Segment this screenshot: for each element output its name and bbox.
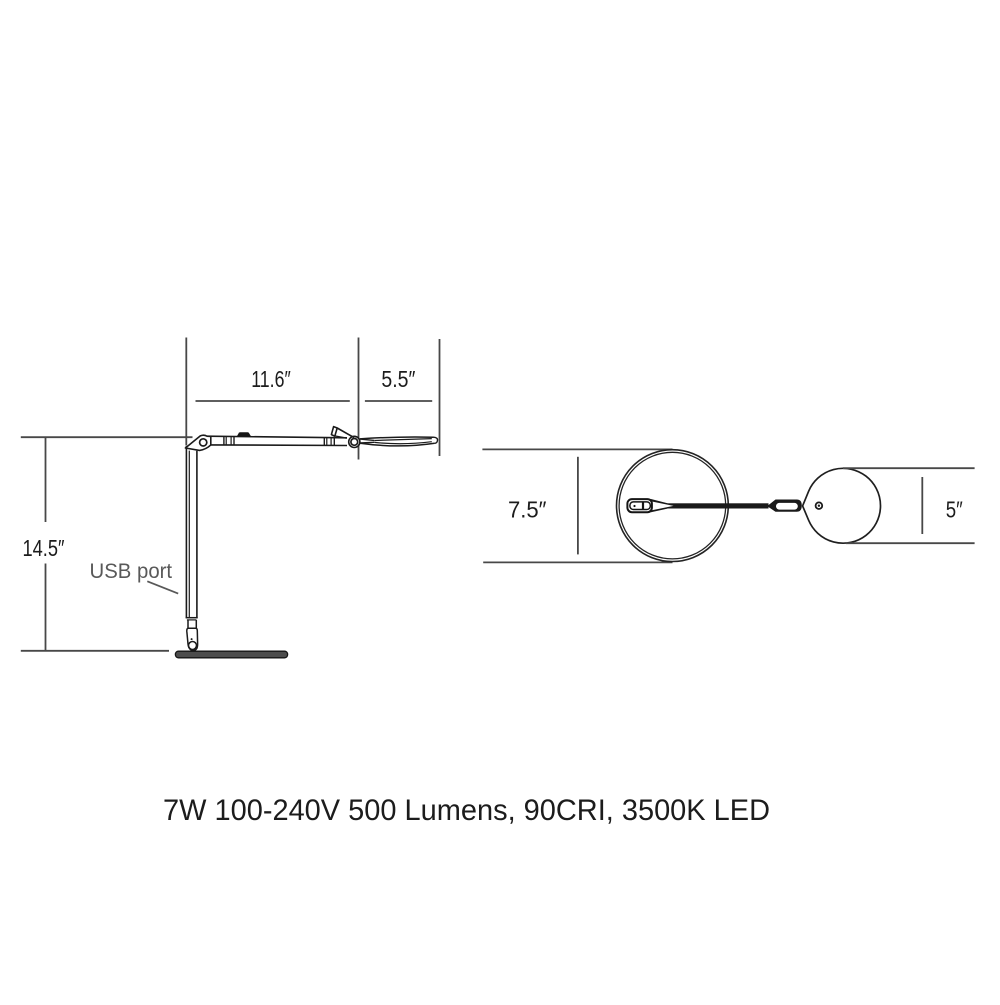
upper arm top edge bbox=[207, 436, 347, 438]
arm connector taper bbox=[651, 499, 668, 513]
head screw ring bbox=[816, 502, 823, 509]
blade end cap bbox=[434, 437, 438, 443]
tilted tab cap bbox=[331, 427, 337, 437]
arm connector body bbox=[627, 499, 652, 512]
arm lower segment left edge bbox=[187, 620, 189, 629]
5 extension line top bbox=[843, 467, 975, 469]
vertical arm inner line bbox=[188, 451, 190, 618]
svg-text:14.5″: 14.5″ bbox=[23, 535, 65, 561]
blade inner bottom line bbox=[374, 442, 432, 444]
lower hinge screw dot bbox=[191, 638, 193, 640]
upper arm bottom edge bbox=[210, 444, 348, 447]
arm segment break lower line bbox=[187, 619, 197, 621]
arm connector inner slot bbox=[630, 502, 650, 510]
head joint ring bbox=[351, 439, 358, 446]
head joint boss bbox=[349, 436, 360, 447]
upper arm body bbox=[211, 436, 347, 445]
arm connector divider bbox=[642, 502, 644, 510]
dimension line 7.5 bbox=[577, 457, 579, 555]
arm connector taper inner wedge bbox=[653, 502, 674, 511]
vertical arm left edge bbox=[185, 446, 187, 618]
lower hinge ring bbox=[189, 642, 197, 650]
tab upper edge bbox=[337, 428, 354, 438]
elbow hinge ring bbox=[200, 439, 207, 446]
head circle (teardrop) bbox=[803, 468, 881, 543]
dimension line 14.5 (upper segment) bbox=[45, 438, 47, 523]
arm collar lines right bbox=[323, 438, 325, 446]
7.5 extension line top bbox=[482, 448, 672, 450]
extension line mid (11.6 right / 5.5 left) bbox=[358, 338, 360, 460]
svg-text:USB port: USB port bbox=[90, 560, 173, 583]
base slab bbox=[175, 651, 287, 658]
blade top edge bbox=[360, 437, 434, 439]
blade inner top line bbox=[374, 439, 432, 441]
arm bar (top view) bbox=[660, 503, 769, 508]
tab lower edge bbox=[335, 436, 346, 438]
elbow hinge body bbox=[185, 435, 210, 450]
lower hinge body bbox=[187, 628, 198, 650]
svg-text:7.5″: 7.5″ bbox=[508, 497, 547, 523]
5 extension line bottom bbox=[846, 542, 975, 544]
arm lower segment right edge bbox=[195, 620, 197, 629]
vertical arm right edge bbox=[196, 451, 198, 618]
leader line USB port bbox=[147, 581, 178, 593]
head screw dot bbox=[818, 505, 820, 507]
head connector (top view) bbox=[767, 500, 802, 512]
extension line top (14.5 top) bbox=[21, 436, 193, 438]
dimension line 5.5 bbox=[365, 400, 432, 402]
svg-text:11.6″: 11.6″ bbox=[251, 366, 291, 392]
base circle inner bbox=[619, 452, 726, 559]
extension line right (5.5 right) bbox=[439, 339, 441, 456]
head connector inner slot bbox=[776, 503, 798, 510]
7.5 extension line bottom bbox=[483, 561, 672, 563]
dimension line 5 bbox=[921, 477, 923, 534]
svg-text:5.5″: 5.5″ bbox=[381, 366, 415, 392]
arm collar lines left bbox=[223, 437, 225, 446]
svg-text:7W 100-240V 500 Lumens, 90CRI,: 7W 100-240V 500 Lumens, 90CRI, 3500K LED bbox=[163, 794, 770, 827]
dimension line 11.6 bbox=[196, 400, 350, 402]
dimension line 14.5 (lower segment) bbox=[45, 564, 47, 651]
blade bottom edge bbox=[360, 443, 434, 446]
blade neck top bbox=[360, 439, 374, 440]
svg-text:5″: 5″ bbox=[946, 497, 963, 523]
blade neck bottom bbox=[360, 441, 374, 444]
extension line bottom (14.5 bottom) bbox=[21, 650, 169, 652]
arm connector dot bbox=[633, 505, 635, 507]
power switch bump bbox=[237, 432, 251, 436]
arm segment break upper line bbox=[186, 617, 198, 619]
base circle outer bbox=[617, 450, 729, 562]
extension line left (11.6 left) bbox=[185, 338, 187, 446]
